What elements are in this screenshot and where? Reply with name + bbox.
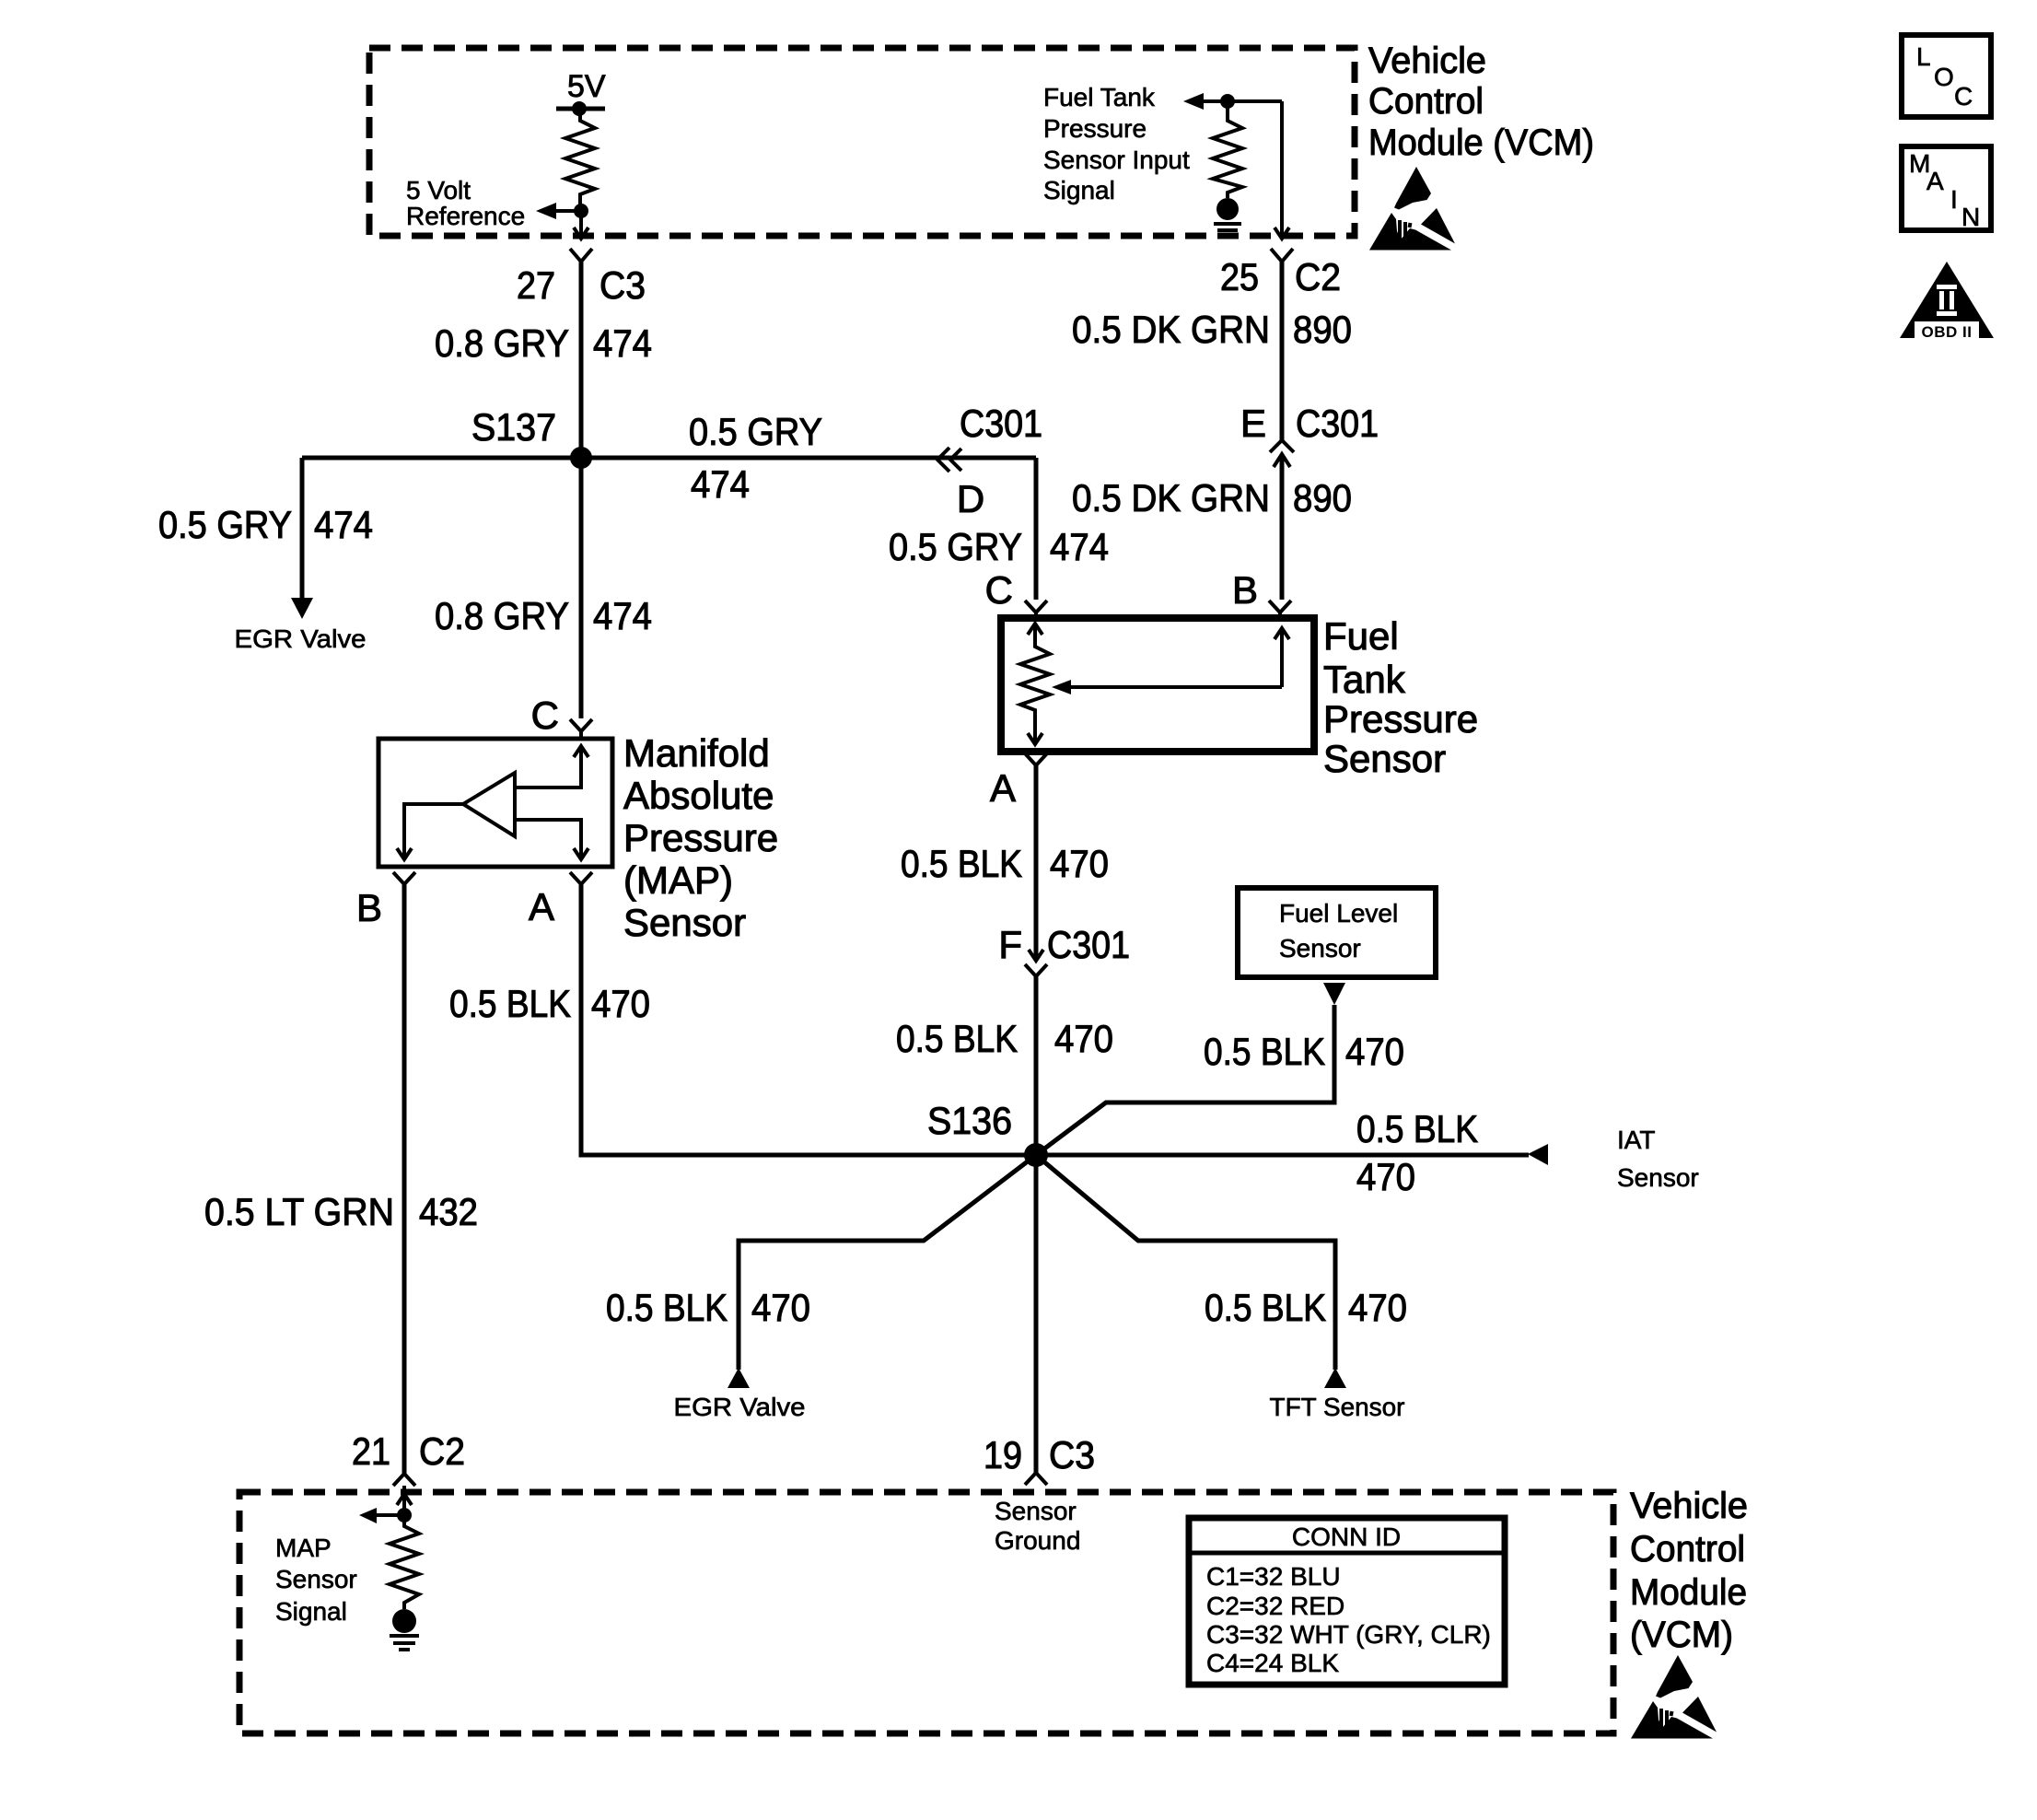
svg-text:0.5 BLK: 0.5 BLK <box>606 1286 727 1329</box>
svg-text:C3=32 WHT (GRY, CLR): C3=32 WHT (GRY, CLR) <box>1206 1620 1491 1649</box>
wire: pin 21 into module <box>402 1486 406 1515</box>
wire: S136 to Fuel Level Sensor <box>1036 1005 1334 1155</box>
svg-text:470: 470 <box>591 982 650 1025</box>
svg-text:470: 470 <box>1050 842 1109 885</box>
svg-text:Pressure: Pressure <box>623 816 778 859</box>
svg-text:C301: C301 <box>1047 923 1130 966</box>
svg-text:Sensor: Sensor <box>275 1565 357 1593</box>
svg-text:TFT Sensor: TFT Sensor <box>1270 1393 1405 1421</box>
svg-text:432: 432 <box>419 1190 478 1233</box>
svg-text:470: 470 <box>1348 1286 1407 1329</box>
pin B of MAP sensor <box>393 872 415 884</box>
svg-text:S136: S136 <box>927 1099 1012 1142</box>
ESD symbol (top VCM) <box>1369 167 1455 251</box>
svg-text:Absolute: Absolute <box>623 774 774 817</box>
resistor (FTP input pull-up) <box>1213 101 1242 198</box>
wire 0.5 BLK 470 (FTP A down) <box>1034 765 1039 958</box>
svg-text:Module: Module <box>1630 1572 1747 1613</box>
svg-text:Ground: Ground <box>995 1526 1080 1555</box>
svg-text:470: 470 <box>751 1286 810 1329</box>
svg-text:C2: C2 <box>1295 255 1341 298</box>
arrow (open) down at module edge <box>574 227 588 239</box>
arrow at EGR Valve end <box>727 1368 750 1388</box>
svg-text:Signal: Signal <box>1043 176 1115 204</box>
wire: S136 down to pin 19 <box>1034 1155 1039 1473</box>
node: MAP signal junction <box>397 1508 412 1522</box>
wire 0.5 DK GRN 890 (C301 to FTP sensor B) <box>1280 454 1285 600</box>
resistor (5V reference pull-up) <box>565 109 595 211</box>
Fuel Tank Pressure Sensor box <box>1001 618 1314 752</box>
ESD symbol (bottom VCM) <box>1631 1655 1717 1739</box>
svg-text:N: N <box>1961 203 1980 231</box>
wire: junction down to module edge <box>579 211 583 238</box>
svg-text:0.5 BLK: 0.5 BLK <box>1205 1286 1326 1329</box>
svg-text:MAP: MAP <box>275 1534 332 1562</box>
svg-text:474: 474 <box>593 594 652 637</box>
svg-text:19: 19 <box>984 1433 1022 1476</box>
wire 0.5 LT GRN 432 (MAP B to pin 21) <box>402 884 407 1474</box>
svg-text:C4=24 BLK: C4=24 BLK <box>1206 1649 1339 1677</box>
svg-text:0.8 GRY: 0.8 GRY <box>435 321 569 365</box>
arrow (open) up at module edge <box>397 1494 412 1505</box>
svg-text:Fuel: Fuel <box>1323 614 1399 658</box>
svg-text:Sensor: Sensor <box>623 901 746 944</box>
svg-text:Module (VCM): Module (VCM) <box>1368 122 1594 163</box>
ground (signal return, top VCM) <box>1216 198 1239 220</box>
svg-text:474: 474 <box>314 503 373 546</box>
wire: branch to EGR Valve <box>300 458 305 599</box>
svg-text:OBD II: OBD II <box>1922 323 1973 341</box>
svg-text:A: A <box>990 766 1016 810</box>
svg-text:C301: C301 <box>1296 402 1379 445</box>
Fuel Level Sensor box <box>1238 888 1436 977</box>
svg-text:Sensor: Sensor <box>995 1497 1077 1525</box>
svg-text:5V: 5V <box>567 69 606 104</box>
internal wire to B <box>397 804 463 859</box>
wire 0.8 GRY 474 (S137 down to MAP C) <box>579 458 584 718</box>
svg-text:5 Volt: 5 Volt <box>406 176 471 204</box>
svg-text:890: 890 <box>1293 476 1352 519</box>
arrow: 5 Volt Reference <box>536 203 556 219</box>
svg-text:Tank: Tank <box>1323 658 1406 701</box>
arrow: Fuel Tank Pressure Sensor Input Signal <box>1183 93 1204 110</box>
svg-text:(VCM): (VCM) <box>1630 1615 1733 1655</box>
VCM module box (bottom, dashed) <box>239 1492 1613 1733</box>
svg-text:O: O <box>1934 63 1954 91</box>
svg-text:470: 470 <box>1054 1017 1113 1060</box>
svg-text:Sensor: Sensor <box>1323 737 1446 780</box>
svg-text:C: C <box>1954 82 1973 111</box>
svg-text:Vehicle: Vehicle <box>1368 41 1486 81</box>
svg-text:0.5 BLK: 0.5 BLK <box>449 982 571 1025</box>
svg-text:474: 474 <box>593 321 652 365</box>
svg-text:0.5 BLK: 0.5 BLK <box>896 1017 1018 1060</box>
wire 0.5 BLK 470 (C301 F to S136) <box>1034 976 1039 1155</box>
svg-text:0.5 LT GRN: 0.5 LT GRN <box>204 1190 394 1233</box>
svg-text:470: 470 <box>1356 1155 1415 1198</box>
svg-text:C1=32 BLU: C1=32 BLU <box>1206 1562 1341 1591</box>
svg-text:S137: S137 <box>471 405 556 449</box>
pin A of FTP sensor <box>1025 753 1047 765</box>
svg-text:0.5 GRY: 0.5 GRY <box>158 503 292 546</box>
svg-text:0.5 GRY: 0.5 GRY <box>689 410 822 453</box>
svg-text:C301: C301 <box>960 402 1042 445</box>
svg-text:25: 25 <box>1220 255 1259 298</box>
wiper arrow of FTP sensor <box>1275 628 1289 687</box>
svg-text:EGR Valve: EGR Valve <box>674 1393 806 1421</box>
arrow at TFT end <box>1324 1368 1346 1388</box>
svg-text:IAT: IAT <box>1617 1126 1655 1154</box>
svg-text:(MAP): (MAP) <box>623 858 733 902</box>
pin 27 C3 connector <box>570 249 592 262</box>
svg-text:890: 890 <box>1293 308 1352 351</box>
svg-text:0.8 GRY: 0.8 GRY <box>435 594 569 637</box>
svg-text:474: 474 <box>691 462 750 506</box>
svg-text:Control: Control <box>1368 81 1484 122</box>
wire 0.5 GRY 474 (C301 down to FTP sensor C) <box>1034 458 1039 600</box>
resistor (MAP signal pull) <box>390 1515 419 1609</box>
svg-text:CONN ID: CONN ID <box>1292 1522 1401 1551</box>
svg-text:E: E <box>1240 402 1266 445</box>
svg-text:27: 27 <box>517 263 555 307</box>
wire: input signal horizontal <box>1204 99 1282 103</box>
svg-text:0.5 BLK: 0.5 BLK <box>1356 1107 1478 1150</box>
wire: S137 horizontal <box>302 456 1036 461</box>
pin 25 C2 connector <box>1271 249 1293 262</box>
svg-text:0.5 DK GRN: 0.5 DK GRN <box>1072 476 1270 519</box>
buffer amplifier inside MAP sensor <box>463 773 515 836</box>
wire: S136 to IAT sensor <box>1036 1153 1529 1158</box>
wire: down to pin 25 <box>1280 101 1284 238</box>
svg-text:0.5 BLK: 0.5 BLK <box>1204 1030 1325 1073</box>
MAIN legend box <box>1902 146 1991 230</box>
svg-text:F: F <box>998 923 1022 966</box>
svg-text:D: D <box>957 477 984 520</box>
wire: S136 to TFT sensor <box>1036 1155 1335 1370</box>
svg-text:C: C <box>531 694 559 737</box>
svg-text:474: 474 <box>1050 525 1109 568</box>
svg-text:Sensor Input: Sensor Input <box>1043 146 1190 174</box>
svg-text:C3: C3 <box>1049 1433 1095 1476</box>
wire to 5 Volt Reference arrow <box>556 209 581 213</box>
svg-text:Control: Control <box>1630 1529 1745 1569</box>
svg-text:0.5 DK GRN: 0.5 DK GRN <box>1072 308 1270 351</box>
svg-text:B: B <box>1232 568 1258 612</box>
svg-text:Fuel Level: Fuel Level <box>1279 899 1398 927</box>
MAP sensor box <box>378 739 612 867</box>
svg-text:21: 21 <box>352 1429 390 1473</box>
wire 0.8 GRY 474 (pin 27 to S137) <box>579 262 584 458</box>
svg-text:C3: C3 <box>599 263 646 307</box>
svg-text:Signal: Signal <box>275 1597 347 1626</box>
svg-text:Sensor: Sensor <box>1279 934 1361 962</box>
svg-text:C2=32 RED: C2=32 RED <box>1206 1592 1344 1620</box>
svg-text:I: I <box>1950 185 1958 214</box>
svg-text:0.5 BLK: 0.5 BLK <box>901 842 1022 885</box>
arrow: MAP Sensor Signal <box>359 1508 377 1523</box>
svg-text:Reference: Reference <box>406 202 525 230</box>
arrow at IAT end <box>1528 1144 1548 1165</box>
svg-text:Sensor: Sensor <box>1617 1163 1699 1192</box>
node: input signal junction <box>1220 94 1235 109</box>
pin A of MAP sensor <box>570 872 592 884</box>
svg-text:A: A <box>1926 167 1944 195</box>
OBD II legend triangle <box>1900 262 1994 338</box>
arrow (open) down at module edge pin 25 <box>1275 227 1289 239</box>
wire 0.5 DK GRN 890 (pin 25 to C301 E) <box>1280 262 1285 440</box>
svg-text:C: C <box>985 568 1013 612</box>
internal wire to A <box>515 820 588 859</box>
wire: S136 to EGR Valve <box>739 1155 1036 1370</box>
svg-text:Vehicle: Vehicle <box>1630 1486 1748 1526</box>
svg-text:0.5 GRY: 0.5 GRY <box>889 525 1022 568</box>
svg-text:Manifold: Manifold <box>623 731 770 775</box>
svg-text:Pressure: Pressure <box>1323 697 1478 741</box>
wire to MAP Sensor Signal arrow <box>377 1513 404 1517</box>
wire 0.5 BLK 470 (MAP A to S136) <box>581 884 1036 1155</box>
5V power rail <box>556 107 605 111</box>
svg-text:C2: C2 <box>419 1429 465 1473</box>
potentiometer (FTP sensing element) <box>1020 624 1050 744</box>
svg-text:A: A <box>529 885 554 928</box>
internal wire to C <box>515 746 588 787</box>
svg-text:B: B <box>356 886 382 929</box>
arrow from Fuel Level Sensor <box>1323 983 1345 1005</box>
svg-text:Pressure: Pressure <box>1043 114 1147 143</box>
node: 5 volt reference junction <box>574 204 588 218</box>
CONN ID table <box>1189 1518 1505 1685</box>
ground (MAP signal, bottom VCM) <box>392 1609 416 1633</box>
VCM module box (top, dashed) <box>369 48 1355 236</box>
LOC legend box <box>1902 35 1991 117</box>
svg-text:Fuel Tank: Fuel Tank <box>1043 83 1156 111</box>
svg-text:L: L <box>1916 42 1931 71</box>
arrow to EGR Valve <box>291 598 313 619</box>
svg-text:470: 470 <box>1345 1030 1404 1073</box>
svg-text:EGR Valve: EGR Valve <box>235 624 367 653</box>
